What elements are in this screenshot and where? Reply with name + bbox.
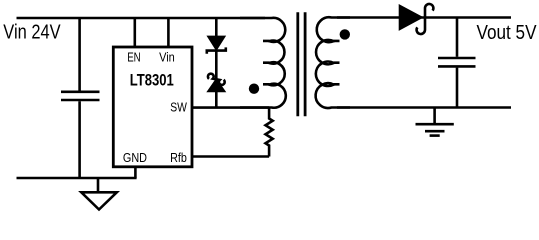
wire: GND pin stub [134,167,137,178]
transformer T1 core [298,12,305,116]
wire: input bottom rail [17,177,137,180]
transformer T1 primary winding [240,18,286,108]
wire: Rfb horizontal [192,155,269,158]
wire: Vin pin stub [167,18,170,47]
node: secondary dot [340,29,350,39]
svg-text:GND: GND [123,150,147,165]
wire: primary winding crossover ticks [263,41,270,84]
wire: input top rail Vin [17,17,266,20]
node: primary dot [249,84,259,94]
wire: SW node horizontal [192,106,269,109]
diode D2 (snubber, curved-bar) [208,51,225,108]
wire: secondary winding crossover ticks [333,41,339,84]
svg-text:Vin: Vin [159,49,175,64]
ground (output, earth symbol) [416,108,454,136]
wire: EN pin stub [134,18,137,47]
transformer T1 secondary winding [316,17,350,108]
IC U1 LT8301 box [113,47,192,167]
zener diode D1 (snubber) [207,18,226,54]
svg-text:Rfb: Rfb [170,150,187,165]
svg-text:LT8301: LT8301 [130,71,174,90]
wire: output top rail [337,16,511,19]
svg-text:EN: EN [127,49,141,64]
capacitor C2 (output cap) [438,18,476,108]
wire: output bottom rail [337,106,511,109]
svg-text:SW: SW [170,100,187,115]
svg-text:Vout 5V: Vout 5V [477,22,538,44]
capacitor C1 (input cap) [61,18,100,178]
ground (input, triangle symbol) [81,178,117,210]
svg-text:Vin 24V: Vin 24V [3,22,61,44]
diode D3 (output rectifier, curved-bar) [400,4,433,34]
resistor R1 (Rfb divider) [266,108,273,157]
